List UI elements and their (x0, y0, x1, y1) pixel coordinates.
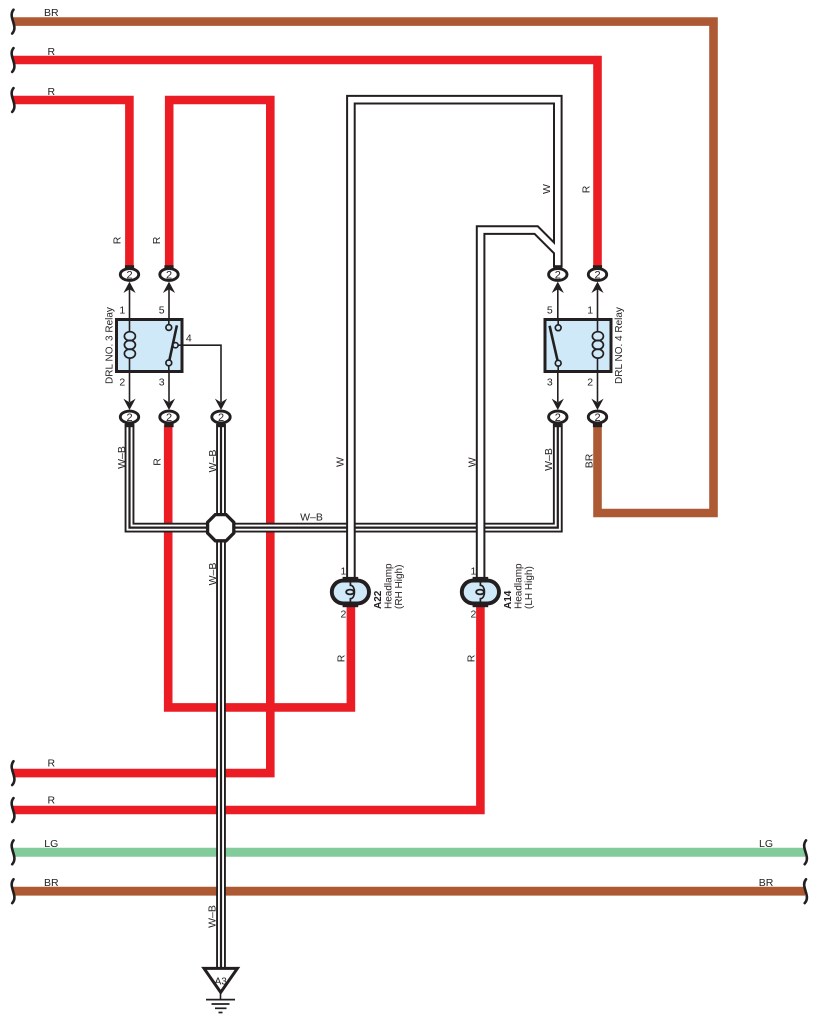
svg-text:W–B: W–B (300, 512, 323, 524)
wire R feed to DRL NO.3 relay pin 1 (13, 100, 129, 267)
connector pair relay4 pin5 (top) (549, 269, 567, 281)
svg-text:W–B: W–B (116, 446, 128, 469)
svg-text:W–B: W–B (543, 448, 555, 471)
svg-text:R: R (48, 46, 56, 58)
svg-text:R: R (48, 86, 56, 98)
svg-text:W–B: W–B (206, 905, 218, 928)
svg-text:R: R (335, 654, 347, 662)
svg-text:2: 2 (555, 412, 561, 424)
wire W high-beam net: headlamps A22 / A14 pin 1 to DRL NO.4 relay pin 5 (351, 100, 558, 579)
svg-text:R: R (112, 236, 124, 244)
svg-text:R: R (581, 185, 593, 193)
connector pair relay4 pin1 (top) (588, 269, 606, 281)
relay 4 switch pin3 contact (555, 360, 561, 366)
ground A3 triangle (204, 968, 237, 992)
svg-text:R: R (48, 795, 56, 807)
bulb filament A22 (350, 579, 354, 605)
svg-text:2: 2 (218, 412, 224, 424)
svg-text:2: 2 (470, 609, 476, 621)
svg-text:W–B: W–B (207, 450, 219, 473)
svg-text:5: 5 (547, 305, 553, 317)
wire relay3 pin4 to connector (178, 345, 221, 402)
relay 4 pin leads (557, 287, 559, 320)
svg-text:BR: BR (44, 7, 59, 19)
wire R fusible feed to DRL NO.4 relay pin 1 (13, 60, 598, 267)
connector pair relay4 pin2 (bottom) (588, 411, 606, 423)
connector pair relay4 pin3 (bottom) (549, 411, 567, 423)
svg-text:W: W (541, 184, 553, 194)
relay 3 coil pin1-pin2 (129, 320, 131, 333)
svg-text:W: W (334, 457, 346, 467)
svg-text:R: R (151, 458, 163, 466)
svg-text:2: 2 (594, 412, 600, 424)
relay DRL NO. 4 Relay (box) (545, 320, 611, 372)
wire LG bottom rail (13, 848, 805, 857)
svg-text:Headlamp: Headlamp (514, 563, 525, 609)
svg-text:A3: A3 (215, 977, 228, 988)
svg-text:(LH High): (LH High) (524, 566, 535, 609)
svg-text:BR: BR (759, 877, 774, 889)
relay 4 switch blade (550, 326, 558, 363)
svg-text:(RH High): (RH High) (394, 565, 405, 609)
wire BR battery feed: top rail, right drop, to DRL NO.4 relay pin 2 (13, 22, 714, 513)
svg-text:DRL NO. 3 Relay: DRL NO. 3 Relay (105, 307, 116, 384)
svg-text:W–B: W–B (207, 563, 219, 586)
svg-text:R: R (151, 236, 163, 244)
ground hatching (220, 993, 222, 999)
headlamp A14 (LH High) (462, 581, 499, 604)
svg-text:3: 3 (547, 377, 553, 389)
svg-text:2: 2 (594, 269, 600, 281)
svg-text:1: 1 (587, 305, 593, 317)
svg-text:Headlamp: Headlamp (384, 563, 395, 609)
wire W-B ground net: relay 3 pin 2 / pin 4, relay 4 pin 3 to junction and ground A3 (130, 424, 558, 968)
relay 4 coil pin1-pin2 (597, 320, 599, 333)
connector pair relay3 pin4 (bottom) (212, 411, 230, 423)
connector pair relay3 pin3 (bottom) (160, 411, 178, 423)
connector pair relay3 pin1 (top) (120, 269, 138, 281)
svg-text:R: R (48, 758, 56, 770)
page-break symbols (left edge) (12, 10, 15, 34)
svg-text:A22: A22 (373, 590, 384, 609)
wire R from headlamp A14 pin 2 down and to lower-left exit (13, 604, 480, 810)
svg-text:2: 2 (126, 269, 132, 281)
svg-text:4: 4 (186, 333, 192, 345)
svg-text:A14: A14 (503, 590, 514, 609)
svg-text:5: 5 (159, 305, 165, 317)
svg-text:1: 1 (470, 566, 476, 578)
svg-text:DRL NO. 4 Relay: DRL NO. 4 Relay (614, 307, 625, 384)
svg-text:R: R (465, 654, 477, 662)
relay DRL NO. 3 Relay (box) (117, 320, 183, 372)
svg-text:BR: BR (583, 453, 595, 468)
node W-B ground junction (octagon) (208, 515, 234, 541)
svg-text:LG: LG (44, 838, 58, 850)
relay 3 switch pin5 contact (168, 320, 170, 325)
svg-text:W: W (467, 457, 479, 467)
svg-text:2: 2 (340, 609, 346, 621)
svg-text:2: 2 (126, 412, 132, 424)
connector pair relay3 pin2 (bottom) (120, 411, 138, 423)
relay 3 pin leads (129, 287, 131, 320)
relay 3 switch blade (169, 325, 177, 362)
connector pair relay3 pin5 (top) (160, 269, 178, 281)
bulb filament A14 (480, 579, 484, 605)
svg-text:2: 2 (166, 269, 172, 281)
svg-text:1: 1 (340, 566, 346, 578)
svg-text:BR: BR (44, 877, 59, 889)
relay 3 pin4 contact (173, 343, 178, 348)
relay 4 switch pin5 contact (557, 320, 559, 325)
svg-text:2: 2 (555, 269, 561, 281)
svg-text:2: 2 (166, 412, 172, 424)
relay 3 switch pin3 contact (166, 360, 172, 366)
page-break symbols (right edge) (804, 840, 807, 864)
wire R from DRL NO.3 relay pin 3 to headlamp A22 pin 2 (168, 425, 351, 708)
svg-text:2: 2 (587, 377, 593, 389)
svg-text:3: 3 (159, 377, 165, 389)
svg-text:2: 2 (119, 377, 125, 389)
wire R from DRL NO.3 relay pin 5 over and down to lower-left exit (13, 100, 270, 773)
headlamp A22 (RH High) (332, 581, 369, 604)
svg-text:LG: LG (759, 838, 773, 850)
wire BR bottom rail (13, 887, 805, 896)
svg-text:1: 1 (119, 305, 125, 317)
